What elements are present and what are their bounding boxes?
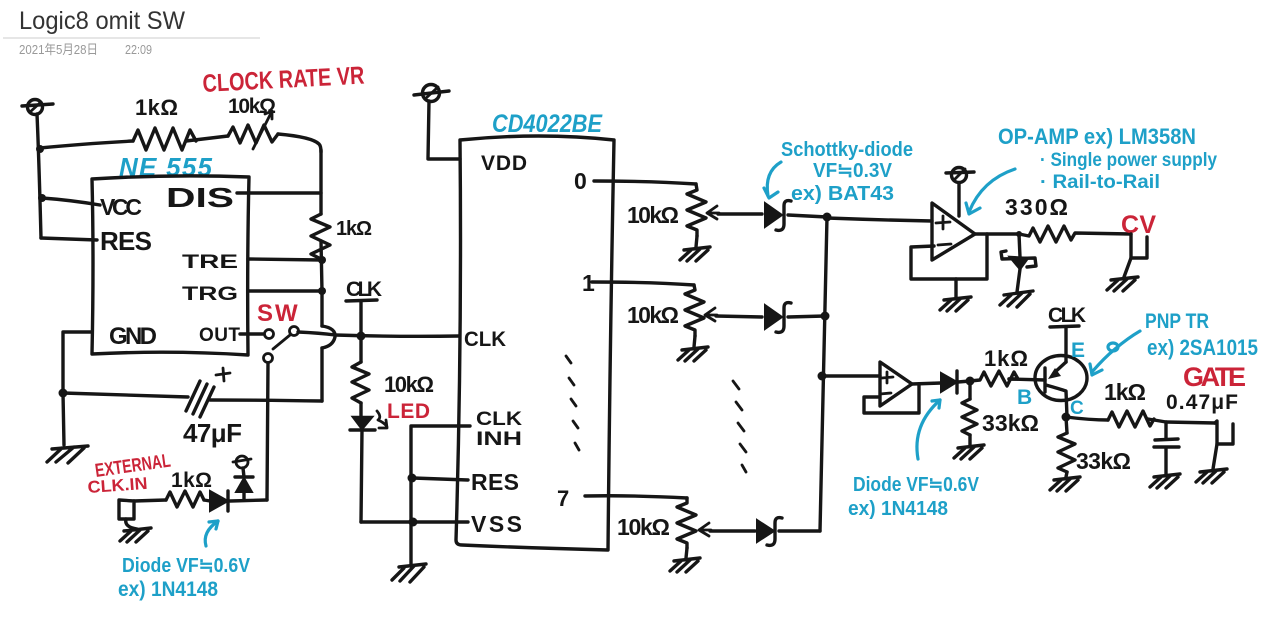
svg-text:LED: LED bbox=[387, 400, 430, 423]
svg-text:ex) 1N4148: ex) 1N4148 bbox=[118, 578, 218, 601]
svg-text:0.47μF: 0.47μF bbox=[1166, 391, 1238, 414]
svg-text:1kΩ: 1kΩ bbox=[135, 95, 178, 120]
svg-text:C: C bbox=[1070, 398, 1084, 419]
svg-text:33kΩ: 33kΩ bbox=[982, 410, 1039, 436]
svg-text:33kΩ: 33kΩ bbox=[1076, 448, 1131, 474]
svg-text:RES: RES bbox=[100, 226, 152, 256]
svg-text:VSS: VSS bbox=[471, 511, 522, 537]
svg-text:ex) BAT43: ex) BAT43 bbox=[791, 183, 894, 205]
svg-text:GATE: GATE bbox=[1183, 362, 1246, 392]
svg-text:DIS: DIS bbox=[166, 182, 234, 213]
svg-text:RES: RES bbox=[471, 469, 519, 495]
svg-text:TRE: TRE bbox=[182, 252, 238, 273]
svg-text:VCC: VCC bbox=[100, 194, 142, 220]
svg-text:10kΩ: 10kΩ bbox=[228, 95, 276, 118]
svg-text:10kΩ: 10kΩ bbox=[627, 302, 679, 328]
svg-text:TRG: TRG bbox=[182, 284, 238, 305]
svg-text:0: 0 bbox=[574, 168, 587, 194]
svg-text:· Rail-to-Rail: · Rail-to-Rail bbox=[1040, 172, 1160, 193]
svg-text:ex) 1N4148: ex) 1N4148 bbox=[848, 498, 948, 520]
svg-text:INH: INH bbox=[476, 429, 522, 450]
svg-text:CLK: CLK bbox=[476, 409, 522, 430]
svg-text:PNP TR: PNP TR bbox=[1145, 310, 1209, 333]
svg-text:SW: SW bbox=[257, 300, 300, 327]
svg-text:CV: CV bbox=[1121, 211, 1156, 239]
svg-text:· Single power supply: · Single power supply bbox=[1040, 150, 1217, 171]
svg-text:VF≒0.3V: VF≒0.3V bbox=[813, 160, 893, 182]
svg-text:Diode VF≒0.6V: Diode VF≒0.6V bbox=[122, 555, 251, 577]
svg-text:1kΩ: 1kΩ bbox=[336, 218, 372, 240]
svg-text:CLOCK RATE VR: CLOCK RATE VR bbox=[202, 62, 365, 98]
svg-text:CLK: CLK bbox=[346, 278, 382, 301]
svg-text:Schottky-diode: Schottky-diode bbox=[781, 139, 913, 161]
svg-text:7: 7 bbox=[557, 486, 569, 511]
svg-text:GND: GND bbox=[109, 323, 157, 350]
svg-text:E: E bbox=[1071, 339, 1085, 362]
svg-text:330Ω: 330Ω bbox=[1005, 194, 1068, 220]
svg-text:10kΩ: 10kΩ bbox=[627, 202, 679, 228]
svg-text:Logic8 omit SW: Logic8 omit SW bbox=[19, 7, 185, 35]
svg-text:ex) 2SA1015: ex) 2SA1015 bbox=[1147, 335, 1258, 360]
svg-text:1kΩ: 1kΩ bbox=[984, 346, 1028, 371]
svg-text:VDD: VDD bbox=[481, 152, 527, 175]
svg-text:CD4022BE: CD4022BE bbox=[492, 110, 603, 138]
svg-text:CLK: CLK bbox=[464, 328, 506, 351]
svg-text:47μF: 47μF bbox=[183, 418, 242, 448]
svg-text:CLK: CLK bbox=[1048, 304, 1086, 327]
svg-text:B: B bbox=[1017, 386, 1032, 409]
svg-text:2021年5月28日: 2021年5月28日 bbox=[19, 42, 98, 57]
svg-text:10kΩ: 10kΩ bbox=[384, 372, 434, 397]
svg-text:OUT: OUT bbox=[199, 325, 240, 346]
svg-text:10kΩ: 10kΩ bbox=[617, 514, 670, 540]
svg-text:OP-AMP ex) LM358N: OP-AMP ex) LM358N bbox=[998, 124, 1196, 149]
svg-text:CLK.IN: CLK.IN bbox=[87, 474, 148, 497]
svg-text:22:09: 22:09 bbox=[125, 42, 152, 57]
svg-text:1kΩ: 1kΩ bbox=[171, 469, 212, 492]
svg-text:Diode VF≒0.6V: Diode VF≒0.6V bbox=[853, 474, 980, 496]
svg-text:1kΩ: 1kΩ bbox=[1104, 379, 1146, 405]
